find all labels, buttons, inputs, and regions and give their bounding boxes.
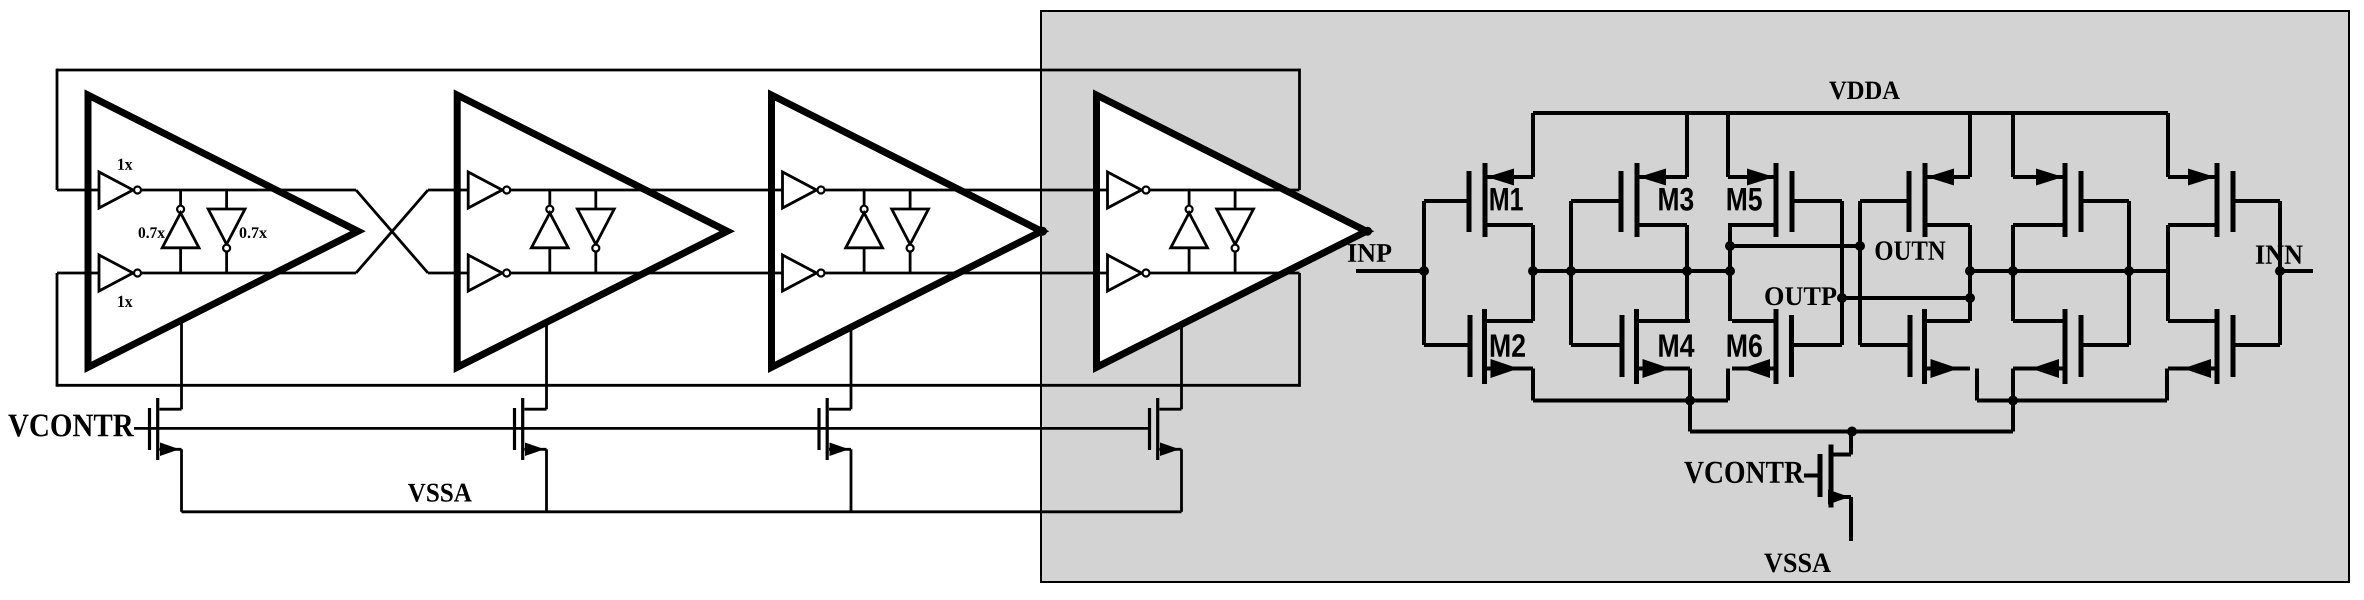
wire feedback left lower [56, 273, 59, 387]
delay stage 2 triangle outline [457, 95, 727, 367]
wire M9-M10 gate vertical [2127, 201, 2131, 345]
transistor M5 [1728, 163, 1792, 237]
wire top rail segment 1 [57, 189, 356, 192]
delay stage 4 triangle fill [1097, 95, 1367, 367]
delay stage 2 triangle fill [457, 95, 727, 367]
wire VDDA rail [1533, 111, 2168, 115]
wire M11-M12 drain vertical [2166, 225, 2170, 321]
wire bottom rail segment 2 [428, 272, 1300, 275]
wire VCONTR gate bus [134, 427, 1151, 430]
label OUTN [1876, 241, 1946, 260]
wire M2 source vertical [1531, 369, 1535, 401]
buffer stage 4 top input (1x) [1108, 172, 1150, 208]
buffer stage 1 bottom input (1x) [99, 255, 141, 291]
wire drain rail left cell [1533, 269, 1730, 273]
transistor M11 (right input) [2168, 163, 2233, 237]
wire INN stub [2280, 269, 2313, 273]
wire M12 source vertical [2165, 369, 2169, 401]
transistor M4 [1622, 309, 1690, 384]
node M4 source [1685, 396, 1695, 406]
label M5 [1728, 188, 1762, 211]
wire top rail segment 2 [428, 189, 1300, 192]
transistor M9 (right diode load) [2013, 163, 2081, 237]
buffer stage 2 top input (1x) [468, 172, 510, 208]
wire bias tap stage 1 [180, 320, 183, 409]
wire feedback top [57, 69, 1300, 72]
node M5 drain OUTN tap [1725, 241, 1735, 251]
wire feedback right upper [1298, 69, 1301, 190]
transistor MT tail (VCONTR) [1820, 445, 1851, 508]
delay stage 1 triangle fill [88, 95, 358, 367]
inverter stage 4 cross-coupled up (0.7x) [1171, 190, 1208, 273]
label VSSA left [408, 484, 472, 502]
node stage 4 output apex [1363, 227, 1372, 236]
wire M7 source to VDDA [1968, 113, 1972, 177]
label OUTP [1765, 287, 1836, 305]
wire crossover diagonal down [356, 190, 428, 273]
label M1 [1490, 188, 1522, 210]
label VCONTR left [8, 414, 134, 436]
transistor M8 (right cell load) [1910, 309, 1970, 384]
label 0.7x left inverter [139, 227, 165, 238]
wire drain rail right cell [1970, 269, 2168, 273]
node stage 3 output apex [1038, 227, 1047, 236]
transistor M6 [1732, 309, 1792, 384]
wire M7 gate lead [1860, 199, 1909, 203]
wire bottom rail segment 1 [57, 272, 356, 275]
wire M9 source to VDDA [2011, 113, 2015, 177]
inverter stage 1 cross-coupled down (0.7x) [208, 190, 245, 273]
label M2 [1491, 334, 1525, 357]
node tail [1847, 427, 1857, 437]
buffer stage 3 top input (1x) [783, 172, 825, 208]
transistor MC1 bias (VCONTR controlled) [150, 398, 182, 512]
wire INP gate bus vertical [1422, 201, 1426, 345]
node M9 gate rail [2124, 266, 2134, 276]
wire feedback left upper [56, 69, 59, 190]
delay stage 3 triangle outline [772, 95, 1042, 367]
wire MT drain to tail rail [1849, 432, 1853, 455]
transistor M12 (right input) [2168, 309, 2233, 384]
node M7 drain rail [1965, 266, 1975, 276]
wire M5-M6 gate vertical (OUTP) [1840, 201, 1844, 345]
wire M7-M8 drain vertical [1968, 225, 1972, 321]
wire M11 source to VDDA [2166, 113, 2170, 177]
wire tail rail [1690, 430, 2013, 434]
wire M4 source vertical to tail [1688, 369, 1692, 432]
node M5-M6 drain rail [1725, 266, 1735, 276]
wire feedback right lower [1298, 273, 1301, 387]
inverter stage 1 cross-coupled up (0.7x) [162, 190, 199, 273]
wire bias tap stage 4 [1180, 325, 1183, 410]
wire M8 gate lead [1860, 343, 1910, 347]
wire M1 source to VDDA [1531, 113, 1535, 177]
wire M6 source vertical [1726, 369, 1730, 401]
node OUTN [1855, 241, 1865, 251]
wire M10 source vertical to tail [2011, 369, 2015, 432]
gray highlight box around delay cell 4 and transistor schematic [1041, 11, 2349, 582]
wire M5-M6 drain vertical [1728, 225, 1732, 321]
transistor MC3 bias (VCONTR controlled) [819, 398, 851, 512]
label M6 [1728, 334, 1762, 357]
transistor M1 [1469, 163, 1533, 237]
wire M9 gate lead [2081, 199, 2129, 203]
wire M6 gate lead [1792, 343, 1843, 347]
node M9 drain rail [2008, 266, 2018, 276]
node OUTP drain junction [1965, 293, 1975, 303]
node M3 gate [1566, 266, 1576, 276]
delay stage 1 triangle outline [88, 95, 358, 367]
label 0.7x right inverter [240, 227, 267, 238]
wire INP stub [1356, 269, 1424, 273]
label M3 [1659, 188, 1693, 211]
wire MT gate stub [1804, 474, 1820, 478]
buffer stage 3 bottom input (1x) [783, 255, 825, 291]
inverter stage 2 cross-coupled down (0.7x) [577, 190, 614, 273]
wire M1-M2 drain vertical [1531, 225, 1535, 321]
label VDDA [1829, 82, 1900, 100]
inverter stage 4 cross-coupled down (0.7x) [1217, 190, 1254, 273]
node INP [1419, 266, 1429, 276]
wire M3-M4 gate vertical [1569, 201, 1573, 345]
transistor MC2 bias (VCONTR controlled) [515, 398, 547, 512]
wire MT source to VSSA [1849, 497, 1853, 541]
wire M3 source to VDDA [1685, 113, 1689, 177]
node OUTP tap [1837, 293, 1847, 303]
inverter stage 3 cross-coupled down (0.7x) [892, 190, 929, 273]
label 1x bottom buffer [118, 296, 132, 307]
wire bottom source rail right [1977, 399, 2167, 403]
wire M12 gate lead [2233, 343, 2280, 347]
wire bottom source rail left [1533, 399, 1728, 403]
wire feedback bottom [57, 384, 1300, 387]
delay stage 3 triangle fill [772, 95, 1042, 367]
node INN [2275, 266, 2285, 276]
wire M4 gate lead [1571, 343, 1622, 347]
buffer stage 1 top input (1x) [99, 172, 141, 208]
wire bias tap stage 2 [545, 322, 548, 409]
wire VSSA rail [182, 510, 1182, 513]
transistor M10 (right diode load) [2013, 309, 2081, 384]
inverter stage 2 cross-coupled up (0.7x) [531, 190, 568, 273]
wire M9-M10 drain vertical [2011, 225, 2015, 321]
wire M3-M4 drain vertical [1685, 225, 1689, 321]
wire crossover diagonal up [356, 190, 428, 273]
node M3 drain [1682, 266, 1692, 276]
delay stage 4 triangle outline [1097, 95, 1367, 367]
wire M11-M12 gate vertical INN [2278, 201, 2282, 345]
transistor MC4 bias (VCONTR controlled) [1150, 398, 1182, 512]
wire OUTN line [1730, 244, 1860, 248]
wire M7-M8 gate vertical from OUTN [1858, 201, 1862, 345]
node M1-M2 drain [1528, 266, 1538, 276]
buffer stage 2 bottom input (1x) [468, 255, 510, 291]
wire M3 gate lead [1571, 199, 1621, 203]
wire M1 gate lead [1424, 199, 1469, 203]
inverter stage 3 cross-coupled up (0.7x) [846, 190, 883, 273]
transistor M7 (right cell load) [1909, 163, 1970, 237]
wire M8 source vertical [1975, 369, 1979, 401]
buffer stage 4 bottom input (1x) [1108, 255, 1150, 291]
wire M10 gate lead [2081, 343, 2129, 347]
wire M11 gate lead [2233, 199, 2280, 203]
wire bias tap stage 3 [850, 327, 853, 409]
label 1x top buffer [118, 159, 132, 170]
wire M5 source to VDDA [1726, 113, 1730, 177]
transistor M3 [1621, 163, 1687, 237]
wire OUTP line [1842, 296, 1970, 300]
label INP [1348, 244, 1391, 262]
label INN [2256, 245, 2303, 263]
node M10 source [2008, 396, 2018, 406]
wire M5 gate lead [1792, 199, 1842, 203]
transistor M2 [1470, 309, 1533, 384]
label M4 [1659, 334, 1694, 356]
wire M2 gate lead [1424, 343, 1470, 347]
label VSSA right [1764, 553, 1831, 572]
label VCONTR right [1684, 462, 1804, 484]
